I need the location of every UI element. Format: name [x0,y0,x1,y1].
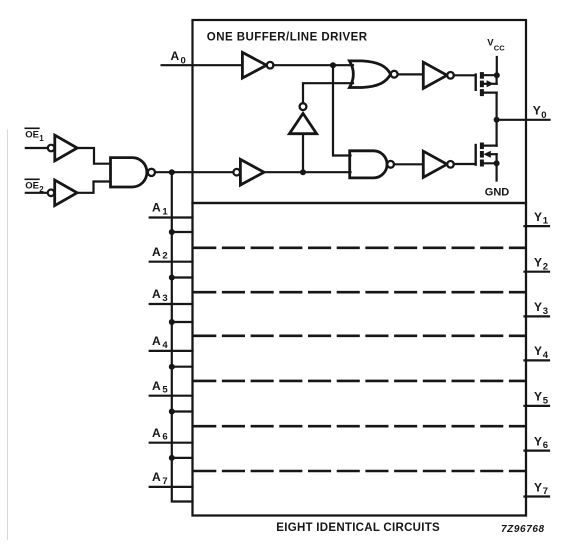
wire U3 output to U5 [398,73,424,75]
svg-text:Y: Y [534,210,542,224]
dashed circuit line 1 [195,247,525,250]
svg-text:7Z96768: 7Z96768 [501,524,545,535]
svg-text:7: 7 [162,476,167,487]
dashed circuit line 3 [195,334,525,337]
wire A6 input [150,442,193,444]
svg-text:0: 0 [541,110,546,121]
label Y6 [534,434,548,451]
transistor M1 (p-channel, top) [476,72,497,96]
dashed circuit line 2 [195,291,525,294]
node enable tap 1 [169,229,175,235]
label A1 [152,201,168,218]
node U6 branch [300,169,306,175]
wire Y6 output [525,450,550,452]
wire U1 output to NOR U3 [273,64,353,66]
label Y4 [534,344,549,361]
svg-text:5: 5 [162,385,168,396]
svg-text:7: 7 [543,486,548,497]
svg-text:A: A [152,379,161,393]
label VCC [487,37,505,52]
wire A4 input [150,350,193,352]
wire A0 input [162,64,243,66]
node enable tap 2 [169,275,175,281]
svg-text:ONE BUFFER/LINE DRIVER: ONE BUFFER/LINE DRIVER [207,32,368,44]
node M2 source/body tie [494,160,500,166]
dashed circuit line 4 [195,380,525,383]
label A3 [152,287,168,304]
svg-text:Y: Y [534,434,542,448]
wire U10 output to U8 bottom input [77,182,110,193]
svg-text:3: 3 [543,306,548,317]
node M1 source/body tie [494,72,500,78]
inverter U10 (OE2) [48,180,77,206]
svg-text:2: 2 [543,261,548,272]
label A7 [152,470,168,487]
wire enable bus (vertical) [172,172,193,501]
wire U2 output to U4 bottom input [264,171,351,173]
svg-text:3: 3 [162,293,167,304]
svg-text:4: 4 [162,340,168,351]
label Y5 [534,390,549,407]
wire U4 output to U7 [394,163,423,165]
wire VCC to M1 [496,57,498,75]
svg-text:Y: Y [534,256,542,270]
node enable tap 6 [169,455,175,461]
wire Y3 output [525,315,550,317]
svg-text:A: A [152,426,161,440]
label OE2 [25,180,44,194]
wire A2 input [150,261,193,263]
wire U8 output (enable) [155,171,233,173]
svg-text:Y: Y [534,300,542,314]
wire enable tap 4 [172,366,193,368]
NAND gate U8 (OE) [111,158,155,187]
node enable branch [169,169,175,175]
svg-text:6: 6 [162,432,167,443]
wire U7 output to M2 gate [454,163,476,165]
wire OE2 input [26,192,48,194]
wire U6 output to U3 bottom input [303,83,353,103]
svg-text:CC: CC [494,43,505,52]
svg-text:4: 4 [543,350,549,361]
node enable tap 4 [169,364,175,370]
svg-text:5: 5 [543,396,549,407]
wire Y0 output [497,119,550,121]
wire A7 input [150,486,193,488]
wire M2 source to GND [496,163,498,180]
svg-text:GND: GND [485,187,510,199]
label A5 [152,379,168,396]
inverter U7 [423,151,454,177]
node enable tap 5 [169,409,175,415]
dashed circuit line 6 [195,470,525,473]
svg-text:OE: OE [25,129,39,140]
NAND gate U4 [350,151,394,178]
wire enable tap 5 [172,410,193,412]
wire Y5 output [525,405,550,407]
inverter U6 (pointing up) [289,103,316,134]
wire A1 input [150,216,193,218]
inverter U5 [423,62,454,88]
NOR gate U3 [350,61,398,88]
label Y0 [533,104,547,121]
svg-text:EIGHT IDENTICAL CIRCUITS: EIGHT IDENTICAL CIRCUITS [276,522,440,534]
box: ONE BUFFER/LINE DRIVER section [193,20,527,203]
wire A5 input [150,395,193,397]
wire branch to U6 [302,134,304,173]
wire enable tap 1 [172,231,193,233]
scan streak (faint) [7,130,9,540]
node enable tap 3 [169,319,175,325]
svg-text:A: A [152,245,161,259]
wire Y7 output [525,495,550,497]
svg-text:OE: OE [25,180,39,191]
svg-text:1: 1 [543,216,549,227]
wire A0 branch to NAND U4 top input [333,65,351,155]
svg-text:A: A [152,201,161,215]
transistor M2 (n-channel, bottom) [476,143,497,167]
wire enable tap 2 [172,276,193,278]
dashed circuit line 5 [195,425,525,428]
node Y0 [494,117,500,123]
wire Y1 output [525,225,550,227]
wire U5 output to M1 gate [454,74,476,76]
wire A3 input [150,303,193,305]
wire M1 to Y0 node [496,93,498,120]
node A0 branch [330,62,336,68]
label Y3 [534,300,548,317]
label A6 [152,426,168,443]
wire enable tap 6 [172,457,193,459]
svg-text:Y: Y [534,344,542,358]
label OE1 [25,129,44,143]
label A2 [152,245,168,262]
svg-text:A: A [171,49,180,63]
svg-text:A: A [152,334,161,348]
wire Y2 output [525,271,550,273]
svg-text:6: 6 [543,440,548,451]
label A0 [171,49,186,66]
svg-text:Y: Y [533,104,541,118]
wire OE1 input [26,147,48,149]
inverter U9 (OE1) [48,135,77,161]
inverter U1 (A0) [242,52,273,78]
label Y7 [534,480,548,497]
wire enable tap 3 [172,321,193,323]
svg-text:1: 1 [162,207,168,218]
svg-text:Y: Y [534,390,542,404]
wire Y4 output [525,359,550,361]
inverter U2 (enable buffer) [233,159,264,185]
label Y2 [534,256,548,273]
wire Y0 node to M2 drain [496,120,498,146]
svg-text:Y: Y [534,480,542,494]
box: eight identical circuits section [193,203,527,516]
svg-text:A: A [152,470,161,484]
label Y1 [534,210,549,227]
svg-text:2: 2 [162,251,167,262]
svg-text:A: A [152,287,161,301]
wire U9 output to U8 top input [77,148,110,164]
label A4 [152,334,168,351]
svg-text:1: 1 [39,134,44,143]
